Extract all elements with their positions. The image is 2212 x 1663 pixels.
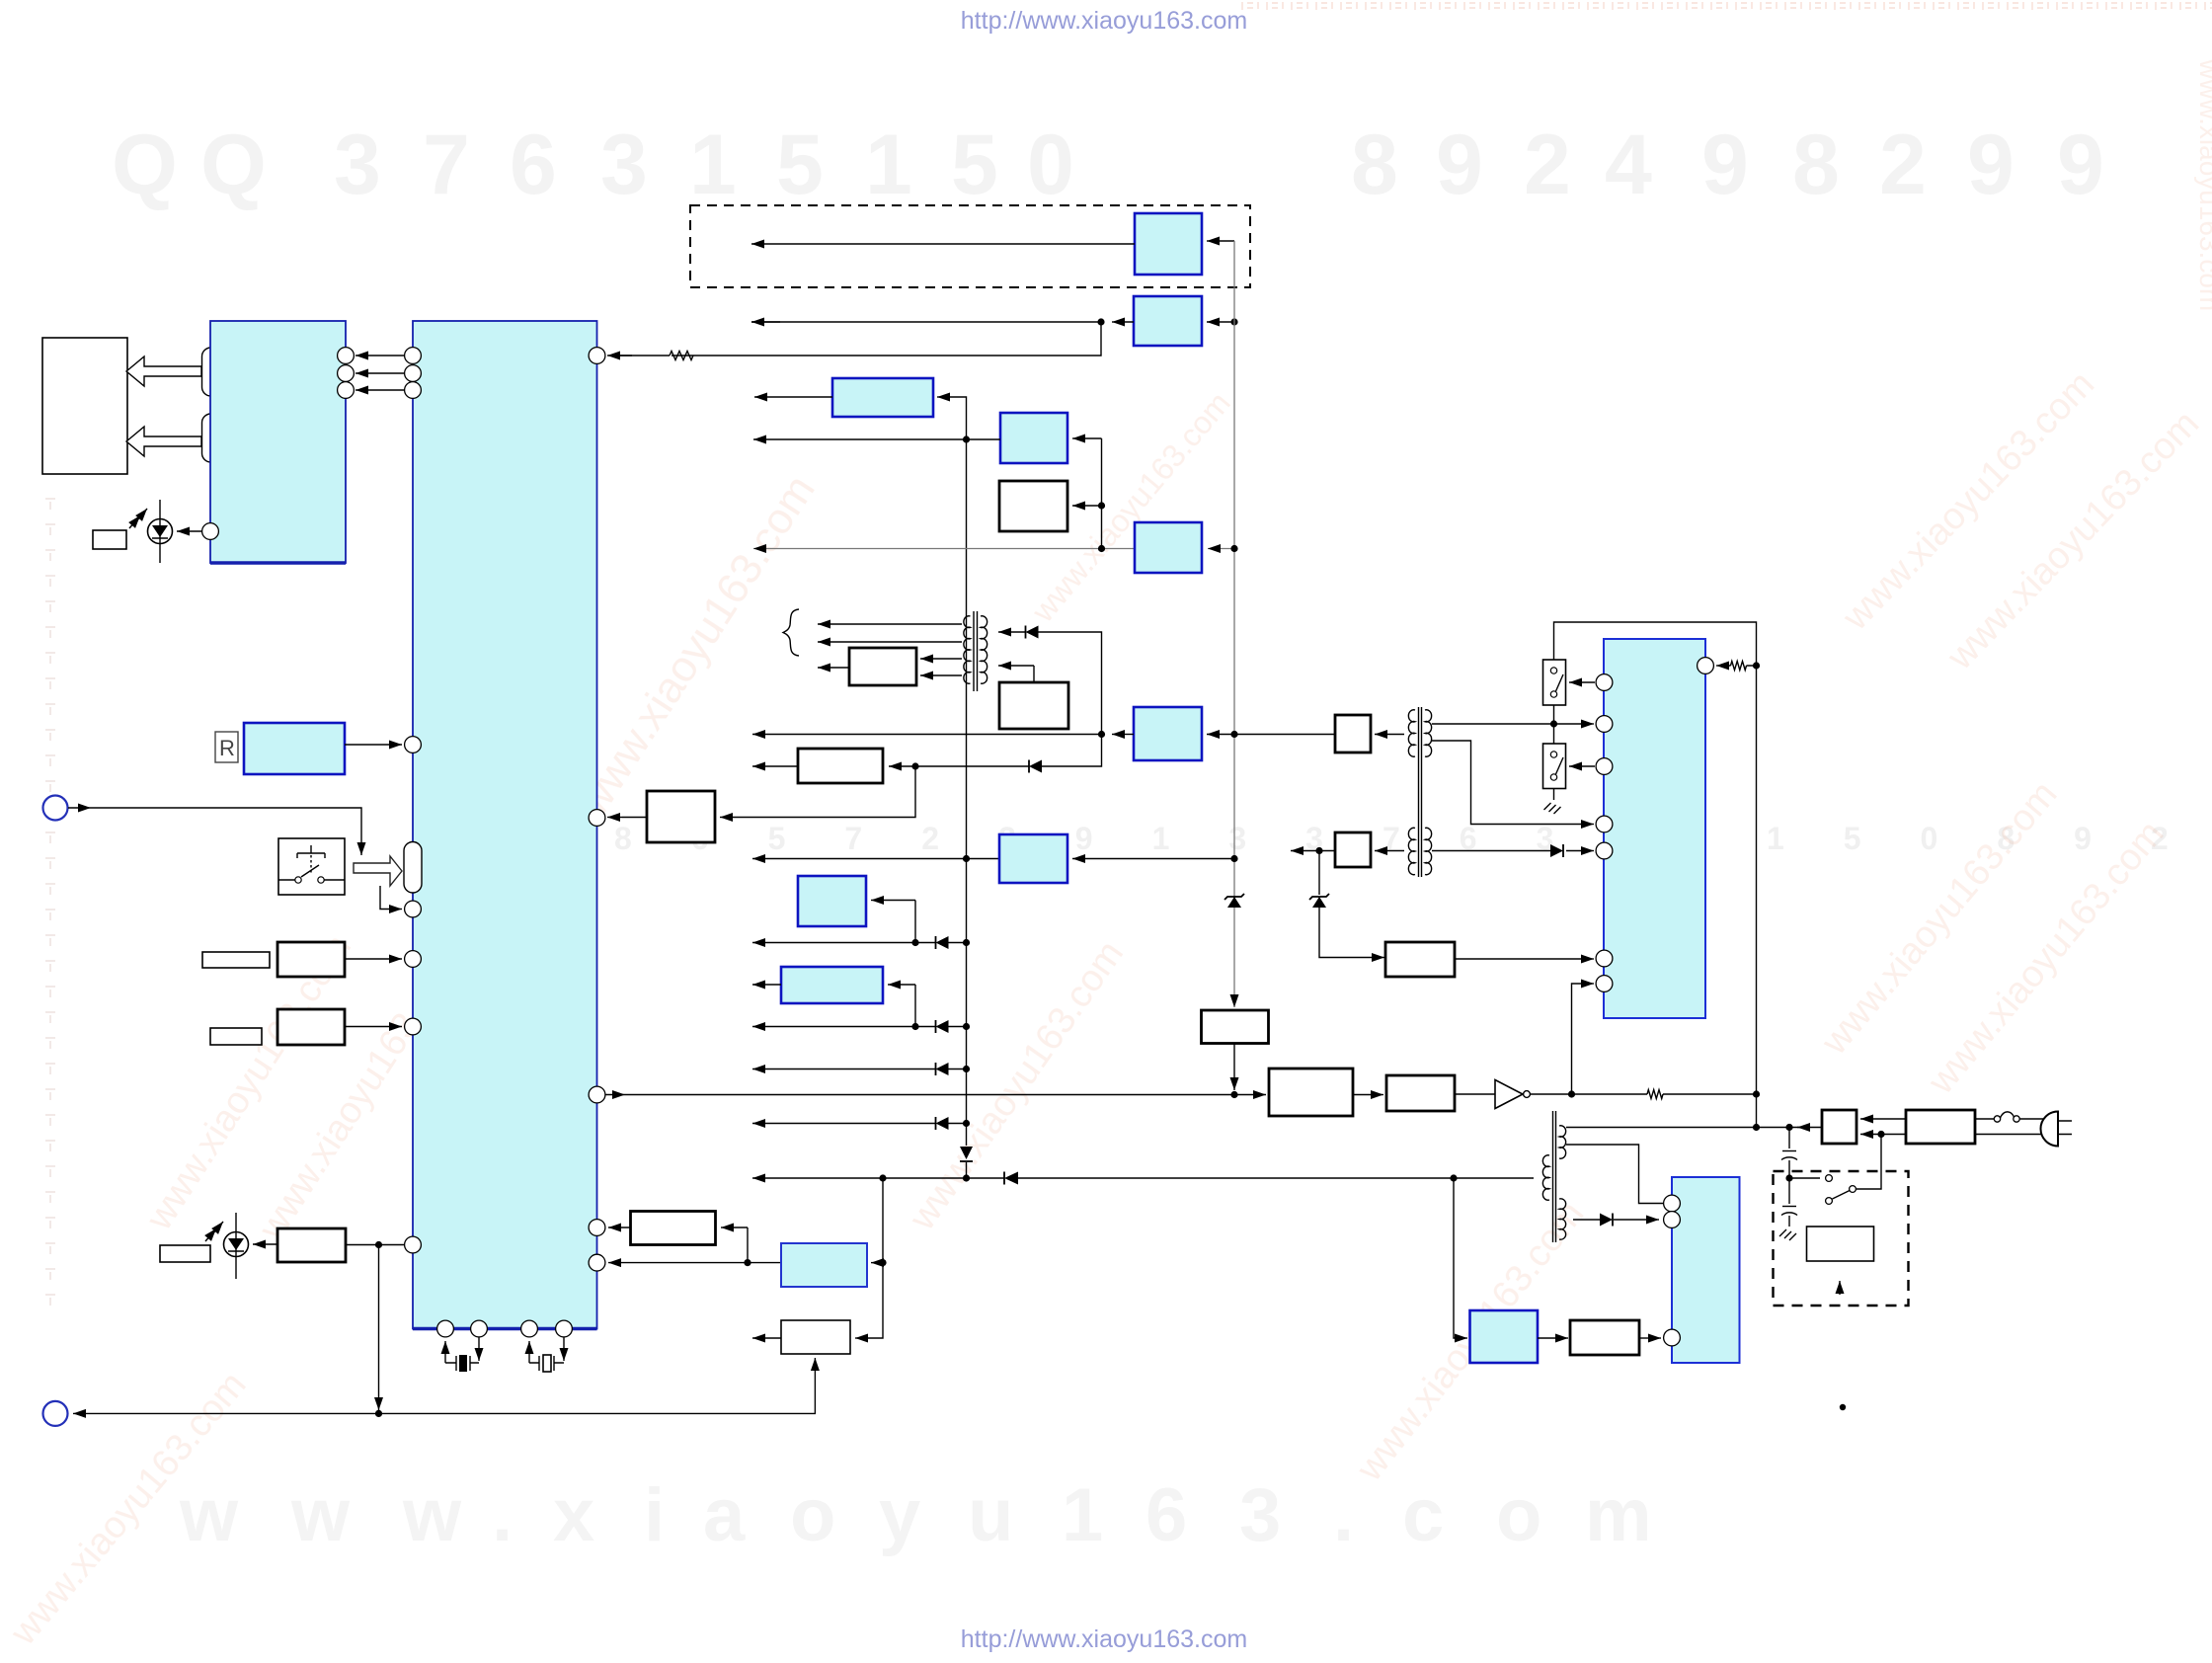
vertical bus right (1233, 241, 1235, 1001)
connector J2 (43, 1401, 68, 1426)
svg-text:http://www.xiaoyu163.com: http://www.xiaoyu163.com (961, 7, 1247, 35)
long rail to T3 (752, 1177, 883, 1179)
tuner box (42, 338, 127, 474)
label box near LED (93, 530, 126, 549)
T1 primary coil (964, 616, 971, 683)
label box near LED2 (160, 1245, 210, 1262)
U1 pin right top (589, 348, 605, 364)
wire B down to U1 resistor line (671, 322, 1101, 356)
block N (631, 1212, 716, 1245)
svg-text:http://www.xiaoyu163.com: http://www.xiaoyu163.com (961, 1625, 1247, 1653)
wire T2 sec bottom to pin4 (1432, 741, 1585, 825)
line filter box (1906, 1110, 1975, 1144)
wire H line (752, 765, 798, 767)
R logo (215, 732, 238, 762)
LED D102 (224, 1232, 249, 1257)
wire J1 to power key (68, 807, 91, 809)
display driver block U2 (210, 321, 346, 563)
U1 pin LED (202, 523, 219, 540)
transformer T3 core (1553, 1111, 1556, 1242)
key label 3 (210, 1028, 262, 1045)
LED D101 (148, 519, 173, 544)
bottom rail wire (73, 1412, 99, 1414)
connector pill 2 (202, 414, 220, 462)
block F2 (999, 682, 1068, 729)
power IC U3 (1604, 639, 1705, 1018)
crystal X2 (529, 1337, 564, 1363)
block H (798, 749, 883, 783)
T1 lower tap to F2 (998, 665, 1034, 667)
switch SW2 (1543, 744, 1566, 789)
transformer T1 core (974, 611, 978, 691)
diode line 1 (752, 942, 936, 944)
wire U1 to LED driver (346, 1244, 405, 1246)
wire T3 lower to diode d10 (1573, 1219, 1600, 1221)
wire T3 second tap to U4 pin1 (1566, 1145, 1663, 1204)
LED driver box (277, 1228, 346, 1262)
U1 PWM pin (589, 1086, 605, 1103)
standby IC U4 (1672, 1177, 1740, 1363)
inverter (1455, 1093, 1495, 1095)
option block A (1135, 213, 1202, 275)
block M (781, 1320, 850, 1354)
power switch box (278, 838, 345, 895)
T1 secondary coil (981, 616, 987, 683)
wire square2 left (1291, 850, 1335, 852)
block D (832, 378, 933, 417)
block P (1135, 522, 1202, 573)
wire AC node to square (1789, 1127, 1822, 1129)
block R driver (1386, 1075, 1455, 1111)
block X (1570, 1320, 1639, 1355)
vertical right (1756, 660, 1758, 1128)
feedback vertical to M (861, 1178, 883, 1338)
U3 pins (1596, 674, 1613, 691)
dashed option box (690, 205, 1250, 287)
wire F right (1072, 505, 1102, 507)
wire T3 top tap (1566, 1127, 1789, 1129)
T1 output line 2 (818, 641, 962, 643)
T3 coil upper right (1559, 1126, 1566, 1158)
AC relay square (1822, 1110, 1856, 1144)
square conv 1 (1335, 715, 1371, 752)
connector pill 3 on U1 (404, 842, 422, 894)
block B (1134, 296, 1202, 346)
SW2 ground (1553, 789, 1555, 801)
wires filter to square (1860, 1118, 1906, 1120)
wire rail down to Y (1454, 1178, 1461, 1338)
selector up arrow (1839, 1281, 1841, 1295)
U1 pins left top (405, 348, 422, 364)
block W (1269, 1069, 1353, 1116)
U1 bottom pins (437, 1320, 454, 1337)
wire B right from bus (1207, 321, 1234, 323)
block arrow to tuner 2 (126, 427, 201, 456)
regulator block G (849, 648, 916, 685)
vertical x1115 upper (1101, 438, 1103, 549)
wire driver to LED2 (253, 1243, 277, 1245)
diode line 4 (752, 1123, 936, 1125)
block L (781, 967, 883, 1003)
block I (647, 791, 715, 842)
gray line to block P (753, 548, 1135, 550)
block Y (1470, 1310, 1539, 1363)
LED D101 emission arrows (136, 509, 147, 521)
wire D right from bus2 (946, 397, 967, 439)
SW1-SW2 link (1553, 705, 1555, 744)
block arrow to tuner 1 (126, 356, 201, 386)
block T (1385, 942, 1455, 977)
T2 coil lower left (1408, 828, 1415, 874)
wire T2 sec top (1432, 723, 1545, 725)
square conv 2 (1335, 832, 1371, 867)
diode line 3 (752, 1069, 936, 1070)
voltage selector vertical (1788, 1128, 1790, 1149)
wire Q left long (752, 734, 1102, 736)
connector pill 1 (202, 348, 220, 396)
block E (1000, 413, 1067, 463)
block V on bus (1202, 1010, 1269, 1044)
diode dH (1028, 760, 1030, 773)
wire key3 to U1 (345, 1026, 402, 1028)
resistor to U3 right pin (1731, 662, 1747, 671)
block O line (608, 1262, 652, 1264)
switch SW1 (1543, 660, 1566, 705)
wire bus U2-U1 line1 (355, 355, 405, 356)
svg-text:892498299: 892498299 (1351, 118, 2104, 212)
T2 coil upper left (1408, 710, 1415, 756)
main system control IC U1 (413, 321, 597, 1329)
T1 rect diode line (998, 631, 1026, 633)
SW1 top loop (1554, 622, 1757, 660)
wire E left long (753, 438, 1000, 440)
watermark top pink strip (1242, 2, 2212, 10)
wire J line (752, 858, 999, 860)
wire Y to X (1538, 1337, 1560, 1339)
U1 pin IR (405, 737, 422, 753)
bus2 vertical (966, 439, 968, 1146)
block J (999, 834, 1067, 883)
key label 2 (202, 952, 270, 968)
wire key to U1 pin (380, 886, 393, 910)
wire bus to square1 (1234, 734, 1335, 736)
selector switch (1826, 1175, 1833, 1182)
block O (781, 1243, 867, 1287)
zener Z1 on bus (1227, 897, 1241, 908)
selector feed (1856, 1135, 1881, 1190)
wire down to bottom rail (378, 1245, 380, 1398)
wire U1 pin to LED (177, 530, 202, 532)
block K (798, 876, 866, 926)
connector J1 (43, 796, 68, 821)
U2 pins right (338, 348, 355, 364)
wire B left long (1112, 321, 1121, 323)
lone dot (1840, 1404, 1846, 1410)
diode line 2 (752, 1026, 936, 1028)
T1 output line 1 (818, 623, 962, 625)
wire A right from bus (1217, 240, 1234, 242)
bus2 diode down (960, 1147, 973, 1159)
resistor R-clk (670, 352, 693, 360)
wire U3 pin1 to SW1 (1569, 681, 1595, 683)
block arrow power key (354, 856, 402, 886)
svg-text:www.xiaoyu163.com: www.xiaoyu163.com (2194, 58, 2212, 311)
key block 2 (277, 942, 345, 977)
wire A left long (751, 243, 1135, 245)
T3 primary coil left (1542, 1155, 1549, 1200)
dashed selector box (1774, 1171, 1909, 1306)
block F (999, 481, 1067, 531)
T2 coil upper right (1425, 710, 1432, 756)
wire IR to U1 (345, 744, 402, 746)
pin7 feed (1572, 984, 1586, 1094)
wire G out (818, 667, 849, 669)
IR receiver block (244, 723, 345, 774)
wires G in from T1 (920, 658, 962, 660)
wire bus U2-U1 line3 (355, 389, 405, 391)
wire D left (754, 396, 832, 398)
wire T2 lower right to d9 (1432, 850, 1550, 852)
T3 coil lower right (1559, 1199, 1566, 1239)
transformer T2 core (1419, 707, 1422, 877)
wire E right (1082, 437, 1102, 439)
AC plug (2041, 1112, 2059, 1147)
curly brace (783, 609, 799, 656)
T2 coil lower right (1425, 828, 1432, 874)
selector label box (1807, 1227, 1874, 1261)
block Q (1134, 707, 1202, 760)
wire T2 lower to square2 (1375, 850, 1404, 852)
zener Z2 (1318, 851, 1320, 896)
wire T2 to square1 (1375, 734, 1404, 736)
faint left margin marks (45, 499, 55, 1306)
fuse and plug (1975, 1118, 1995, 1120)
wire key2 to U1 (345, 958, 402, 960)
crystal X1 (445, 1337, 479, 1363)
key block 3 (277, 1009, 345, 1045)
wire bus U2-U1 line2 (355, 372, 405, 374)
vertical x1115 lower (1042, 735, 1102, 767)
wire H down to U1 (731, 766, 915, 818)
svg-text:R: R (219, 736, 235, 760)
